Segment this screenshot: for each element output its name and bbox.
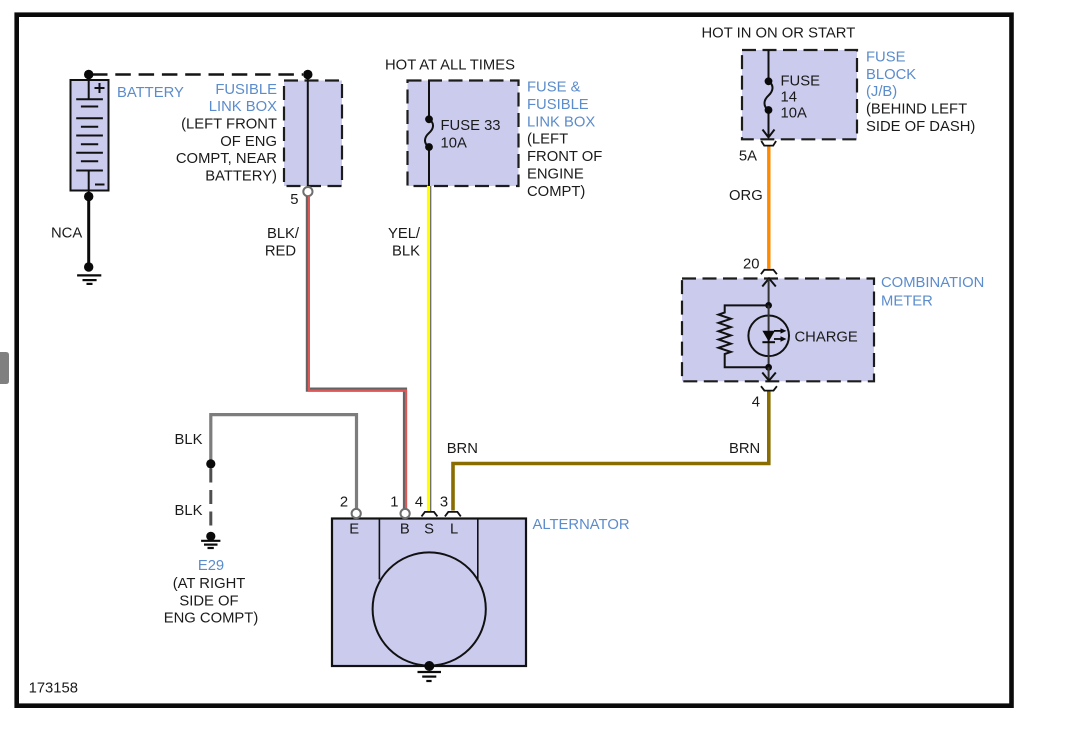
YEL/BLK label [388,226,421,259]
wire ORG fuse14 to combination meter [767,147,770,269]
svg-text:FUSE &: FUSE & [527,80,581,96]
fuse &amp; fusible link box (fuse 33) [408,81,519,187]
wire BLK/RED from pin 5 to alternator B [308,196,406,509]
svg-text:20: 20 [743,257,759,273]
terminal B circle [401,509,410,518]
svg-text:E: E [349,521,359,537]
svg-text:B: B [400,521,410,537]
svg-text:5: 5 [290,192,298,208]
svg-text:5A: 5A [739,148,757,164]
wire through indicator [768,305,770,367]
svg-text:FUSE 33: FUSE 33 [441,118,501,134]
ground E29 [201,532,220,548]
node bottom junction [765,364,772,371]
LED symbol [762,328,786,342]
svg-text:COMBINATION: COMBINATION [881,275,984,291]
svg-text:ORG: ORG [729,188,763,204]
ground (battery) [77,262,101,284]
fuse block label [866,50,975,135]
svg-text:BLK/: BLK/ [267,226,300,242]
svg-text:(LEFT: (LEFT [527,132,568,148]
combination meter box [682,279,874,382]
svg-text:14: 14 [781,90,797,106]
wire BLK dashed to E29 [209,469,212,533]
svg-text:LINK BOX: LINK BOX [209,99,277,115]
svg-text:FUSIBLE: FUSIBLE [215,82,277,98]
terminal S connector cup [422,512,438,517]
svg-text:FUSIBLE: FUSIBLE [527,97,589,113]
fuse block (fuse 14) [742,50,857,139]
svg-text:FUSE: FUSE [866,50,906,66]
svg-text:4: 4 [415,495,423,511]
svg-text:METER: METER [881,294,933,310]
charge indicator circle [748,316,789,357]
svg-text:1: 1 [390,495,398,511]
svg-text:YEL/: YEL/ [388,226,421,242]
wire BLK alternator E to splice [211,415,357,509]
wire BRN meter to alternator L [453,392,769,511]
svg-text:BATTERY): BATTERY) [205,169,277,185]
fuse 33 value label [441,118,501,151]
left gray tab [0,352,9,384]
meter output arrow [762,367,776,380]
svg-text:HOT IN ON OR START: HOT IN ON OR START [702,25,856,41]
svg-text:COMPT, NEAR: COMPT, NEAR [176,151,277,167]
svg-text:HOT AT ALL TIMES: HOT AT ALL TIMES [385,57,515,73]
svg-text:3: 3 [440,495,448,511]
fuse 14 value label [781,74,821,122]
svg-text:BRN: BRN [729,441,760,457]
wire NCA battery to ground [87,197,90,267]
terminal L connector cup [445,512,461,517]
battery [71,70,109,201]
fusible link box label [176,82,277,185]
svg-text:BATTERY: BATTERY [117,85,184,101]
svg-text:OF ENG: OF ENG [220,134,277,150]
wire battery to fusible link box (dashed) [92,73,303,75]
BLK/RED label [265,226,300,259]
pin 5 circle [303,187,312,196]
ground alternator [418,661,442,681]
svg-text:CHARGE: CHARGE [795,329,858,345]
svg-text:BLK: BLK [175,432,203,448]
svg-text:10A: 10A [781,106,807,122]
fuse 33 symbol [425,115,433,151]
svg-text:SIDE OF: SIDE OF [179,593,238,609]
svg-text:FUSE: FUSE [781,74,821,90]
svg-text:BLK: BLK [175,503,203,519]
svg-text:ENGINE: ENGINE [527,167,584,183]
svg-text:S: S [424,521,434,537]
svg-text:(BEHIND LEFT: (BEHIND LEFT [866,102,967,118]
svg-text:(LEFT FRONT: (LEFT FRONT [181,117,277,133]
svg-text:LINK BOX: LINK BOX [527,114,595,130]
combination meter label [881,275,984,310]
svg-text:4: 4 [752,394,760,410]
fuse &amp; fusible link box label [527,80,602,200]
node top junction [765,302,772,309]
svg-text:(J/B): (J/B) [866,84,897,100]
svg-text:(AT RIGHT: (AT RIGHT [173,576,246,592]
alternator box [332,519,526,667]
alternator rotor circle [373,552,486,665]
svg-text:FRONT OF: FRONT OF [527,149,602,165]
svg-text:E29: E29 [198,558,224,574]
pin 4 connector cup [761,386,777,390]
svg-text:COMPT): COMPT) [527,184,585,200]
meter input arrow [762,278,776,305]
resistor branch [719,305,769,367]
terminal E circle [352,509,361,518]
E29 label [164,558,259,626]
fuse 14 output arrow [763,130,775,138]
fuse 14 output connector cup [761,141,776,146]
svg-text:173158: 173158 [29,681,78,697]
fuse 14 symbol [764,77,772,114]
svg-text:RED: RED [265,243,296,259]
svg-text:10A: 10A [441,135,467,151]
svg-text:BLK: BLK [392,243,420,259]
svg-text:L: L [450,521,458,537]
svg-text:SIDE OF DASH): SIDE OF DASH) [866,119,975,135]
pin 20 connector cup [761,270,777,274]
svg-text:BLOCK: BLOCK [866,67,916,83]
svg-text:BRN: BRN [447,441,478,457]
svg-text:2: 2 [340,495,348,511]
svg-text:ENG COMPT): ENG COMPT) [164,611,259,627]
svg-text:ALTERNATOR: ALTERNATOR [533,517,630,533]
splice node [206,459,215,468]
wire YEL/BLK fuse33 to alternator S [429,186,431,511]
fusible link box [284,70,342,187]
svg-text:NCA: NCA [51,226,82,242]
